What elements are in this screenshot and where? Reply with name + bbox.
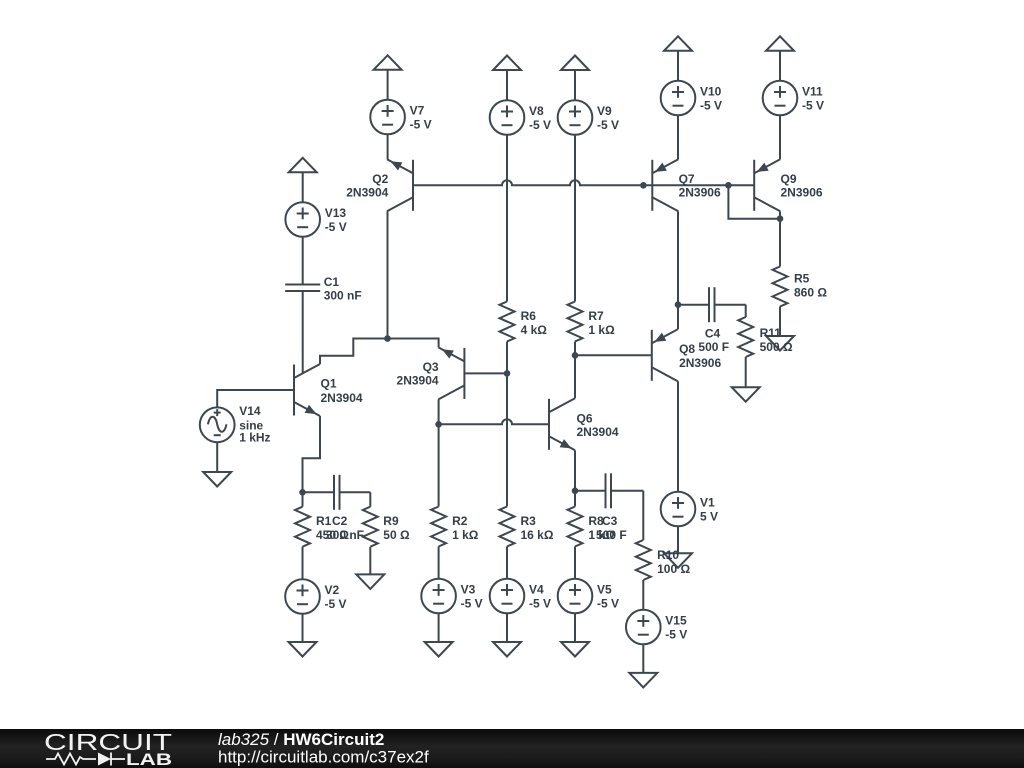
voltage source V13 [285, 202, 346, 237]
power flag [374, 55, 402, 99]
resistor R3 [500, 507, 554, 579]
sine voltage source V14 [200, 404, 271, 444]
wire Q2 collector [387, 211, 389, 338]
svg-text:-5 V: -5 V [529, 597, 551, 611]
svg-text:V4: V4 [529, 583, 544, 597]
wire V15 to ground [642, 644, 644, 673]
junction Q9 collector node [777, 215, 784, 222]
svg-text:4 kΩ: 4 kΩ [521, 323, 548, 337]
transistor Q6 (2N3904) [549, 398, 619, 450]
ground [664, 553, 692, 568]
svg-text:-5 V: -5 V [529, 118, 551, 132]
wire Q3 collector down [438, 399, 440, 506]
wire V5 to ground [574, 613, 576, 642]
transistor Q3 (2N3904) [397, 347, 465, 399]
voltage source V9 [558, 100, 619, 135]
svg-text:C1: C1 [324, 275, 340, 289]
junction node Q9 base tap [725, 182, 732, 189]
svg-text:2N3906: 2N3906 [781, 186, 823, 200]
svg-text:500 Ω: 500 Ω [760, 340, 793, 354]
svg-text:C4: C4 [705, 327, 721, 341]
wire R7 to Q6 collector [574, 342, 576, 399]
svg-text:860 Ω: 860 Ω [794, 285, 827, 299]
capacitor C4 [678, 287, 746, 354]
voltage source V11 [763, 81, 824, 116]
wire V10 to Q7 emitter [677, 115, 679, 159]
svg-text:1 kΩ: 1 kΩ [452, 528, 479, 542]
svg-text:V13: V13 [325, 206, 347, 220]
wire Q8 base [575, 354, 652, 356]
svg-text:-5 V: -5 V [802, 99, 824, 113]
voltage source V8 [490, 100, 551, 135]
svg-text:-5 V: -5 V [461, 597, 483, 611]
CircuitLab logo [44, 729, 172, 768]
svg-text:LAB: LAB [126, 751, 172, 768]
wire C2 to R9 [369, 492, 371, 506]
svg-text:C2: C2 [332, 514, 348, 528]
wire V2 to ground [302, 614, 304, 642]
wire C4 to R11 [745, 305, 747, 317]
junction node Q1/Q2/Q3 [384, 335, 391, 342]
svg-text:Q6: Q6 [577, 411, 593, 425]
svg-text:R11: R11 [760, 326, 782, 340]
svg-text:-5 V: -5 V [325, 220, 347, 234]
wire Q1 emitter to R1 node [303, 416, 321, 492]
svg-text:-5 V: -5 V [700, 99, 722, 113]
junction R1/C2 node [299, 489, 306, 496]
svg-text:V10: V10 [700, 85, 722, 99]
svg-text:Q7: Q7 [679, 172, 695, 186]
wire V1 to ground [677, 526, 679, 553]
capacitor C3 [575, 473, 643, 542]
resistor R5 [773, 267, 828, 337]
svg-text:V2: V2 [325, 583, 340, 597]
junction R7 / Q8 base node [572, 352, 579, 359]
resistor R2 [431, 507, 479, 579]
svg-text:2N3906: 2N3906 [679, 186, 721, 200]
ground [203, 472, 231, 487]
svg-text:100 Ω: 100 Ω [657, 562, 690, 576]
voltage source V3 [421, 579, 482, 614]
wire node to Q3 emitter [388, 339, 439, 348]
svg-text:http://circuitlab.com/c37ex2f: http://circuitlab.com/c37ex2f [218, 748, 429, 767]
svg-text:V5: V5 [597, 583, 612, 597]
wire V14 to Q1 base [217, 390, 294, 407]
wire V4 to ground [506, 613, 508, 642]
svg-text:300 nF: 300 nF [324, 288, 362, 302]
ground [561, 642, 589, 657]
power flag [561, 56, 589, 101]
wire Q6 emitter down [574, 450, 576, 491]
svg-text:V8: V8 [529, 104, 544, 118]
transistor Q1 (2N3904) [294, 364, 363, 416]
svg-text:R10: R10 [657, 548, 679, 562]
svg-text:2N3904: 2N3904 [321, 391, 363, 405]
svg-text:R1: R1 [316, 514, 332, 528]
resistor R8 [568, 491, 616, 579]
svg-text:1 kHz: 1 kHz [239, 431, 270, 445]
capacitor C2 [303, 475, 371, 542]
power flag [766, 36, 794, 80]
wire V9 to R7 [574, 135, 576, 302]
wire R6 to R3 [506, 342, 508, 507]
voltage source V4 [490, 579, 551, 614]
transistor Q7 (2N3906) [652, 159, 721, 211]
svg-text:-5 V: -5 V [665, 628, 687, 642]
svg-text:R3: R3 [521, 514, 537, 528]
resistor R9 [363, 507, 410, 575]
ground [425, 642, 453, 657]
wire Q9 collector to R5 [779, 211, 781, 266]
svg-text:16 kΩ: 16 kΩ [521, 528, 554, 542]
svg-text:450 Ω: 450 Ω [316, 528, 349, 542]
wire V8 to R6 [506, 135, 508, 302]
svg-text:2N3904: 2N3904 [577, 425, 619, 439]
voltage source V2 [285, 579, 346, 614]
svg-text:R2: R2 [452, 514, 468, 528]
svg-text:500 F: 500 F [596, 528, 627, 542]
footer bar [0, 729, 1024, 768]
resistor R1 [295, 492, 349, 579]
svg-text:Q2: Q2 [372, 172, 388, 186]
footer title text [218, 730, 429, 767]
svg-text:5 V: 5 V [700, 510, 718, 524]
wire Q9 base to Q9 collector (diode connection) [728, 185, 780, 218]
power flag [493, 56, 521, 101]
svg-text:2N3904: 2N3904 [397, 374, 439, 388]
svg-text:500 F: 500 F [698, 340, 729, 354]
wire V7 to Q2 emitter [387, 134, 389, 159]
resistor R10 [636, 540, 691, 610]
wire Q3 base to R6/R3 [464, 372, 507, 374]
svg-text:-5 V: -5 V [597, 597, 619, 611]
svg-text:lab325 / HW6Circuit2: lab325 / HW6Circuit2 [218, 730, 384, 749]
wire V3 to ground [438, 613, 440, 642]
resistor R6 [500, 302, 548, 342]
transistor Q9 (2N3906) [754, 159, 823, 211]
svg-text:V15: V15 [665, 614, 687, 628]
transistor Q8 (2N3906) [652, 329, 722, 381]
ground [493, 642, 521, 657]
junction Q3 base node [504, 370, 511, 377]
junction Q7 collector / C4 [675, 301, 682, 308]
transistor Q2 (2N3904) [346, 159, 413, 211]
svg-text:-5 V: -5 V [410, 118, 432, 132]
svg-text:Q8: Q8 [679, 342, 695, 356]
svg-text:V3: V3 [461, 583, 476, 597]
junction node base bus / Q7 [640, 182, 647, 189]
svg-text:V9: V9 [597, 104, 612, 118]
svg-text:C3: C3 [602, 514, 618, 528]
svg-text:R6: R6 [521, 309, 537, 323]
wire V14 to ground [216, 442, 218, 472]
svg-text:1 kΩ: 1 kΩ [588, 323, 615, 337]
logo resistor-diode glyph [46, 753, 125, 766]
svg-text:V1: V1 [700, 496, 715, 510]
junction Q6 base node [435, 421, 442, 428]
svg-text:R9: R9 [383, 514, 399, 528]
svg-text:Q9: Q9 [781, 172, 797, 186]
svg-text:50 Ω: 50 Ω [383, 528, 410, 542]
svg-text:2N3906: 2N3906 [679, 356, 721, 370]
svg-text:R7: R7 [588, 309, 604, 323]
svg-text:-5 V: -5 V [325, 597, 347, 611]
voltage source V10 [661, 81, 722, 116]
power flag [289, 158, 317, 202]
svg-text:-5 V: -5 V [597, 118, 619, 132]
svg-text:Q1: Q1 [321, 377, 337, 391]
resistor R7 [568, 302, 616, 342]
svg-text:V7: V7 [410, 104, 425, 118]
power flag [664, 36, 692, 80]
svg-text:V11: V11 [802, 85, 823, 99]
ground [732, 387, 760, 402]
wire C3 to R10 [642, 491, 644, 540]
wire V13 to C1 [302, 237, 304, 285]
ground [289, 642, 317, 657]
wire Q1 collector to node [320, 339, 388, 365]
svg-text:V14: V14 [239, 404, 261, 418]
ground [629, 673, 657, 688]
svg-text:2N3904: 2N3904 [346, 186, 388, 200]
wire Q7 collector to Q8 emitter [677, 211, 679, 329]
wire V11 to Q9 emitter [779, 115, 781, 159]
junction Q6 emitter / R8 / C3 [572, 488, 579, 495]
wire Q6 base [439, 419, 549, 424]
wire Q2 base to Q9 base bus [413, 180, 754, 185]
voltage source V7 [370, 100, 431, 135]
svg-text:Q3: Q3 [423, 360, 439, 374]
ground [356, 574, 384, 589]
wire Q8 collector to V1 [677, 381, 679, 491]
capacitor C1 [285, 275, 362, 373]
voltage source V1 [661, 492, 718, 527]
voltage source V5 [558, 579, 619, 614]
svg-text:R5: R5 [794, 271, 810, 285]
voltage source V15 [626, 610, 687, 645]
resistor R11 [738, 317, 793, 387]
ground [766, 336, 794, 351]
